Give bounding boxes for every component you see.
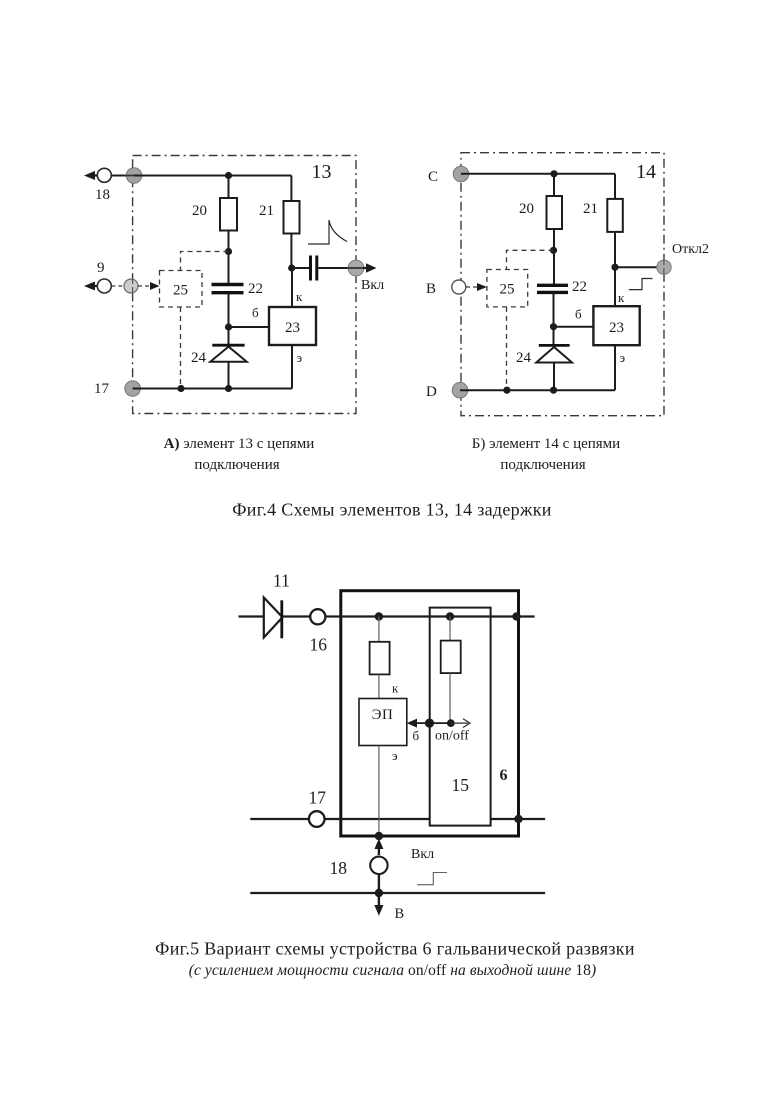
step icon B: [629, 279, 653, 290]
junction dot collector node: [288, 264, 295, 271]
device 6 box: [341, 591, 519, 836]
figure 4 caption: [232, 500, 551, 520]
bottom rail A: [133, 388, 292, 390]
junction dot rail-dashed: [177, 385, 184, 392]
label 6: [500, 767, 508, 784]
enclosure 13 dash-dot border: [133, 156, 356, 414]
collector wire: [291, 268, 293, 307]
junction dot top R20B: [550, 170, 557, 177]
svg-text:к: к: [296, 289, 303, 304]
svg-text:б: б: [252, 305, 259, 320]
wire 16 into box: [325, 615, 341, 617]
junction dot collector node B: [611, 264, 618, 271]
label 16: [310, 635, 328, 655]
svg-text:6: 6: [500, 767, 508, 784]
svg-text:Вкл: Вкл: [361, 278, 384, 293]
open circle pin 18: [97, 168, 111, 182]
svg-text:э: э: [297, 350, 303, 365]
wire R21B to collector node: [614, 232, 616, 267]
label b (EP): [413, 728, 420, 743]
gray terminal Vkl: [348, 260, 364, 276]
svg-text:б: б: [575, 307, 582, 322]
label 9: [97, 260, 105, 276]
svg-text:э: э: [392, 748, 398, 763]
junction dot railB-diode: [550, 387, 557, 394]
resistor 20: [220, 198, 237, 231]
wire C22B to base node: [553, 292, 555, 326]
svg-text:э: э: [620, 350, 626, 365]
dashed link node to box 25B: [507, 250, 554, 269]
capacitor 22 (B): [537, 285, 568, 292]
open arrow right on/off: [451, 719, 471, 728]
svg-text:21: 21: [259, 203, 274, 219]
caption A: [164, 436, 315, 473]
output wire to Otkl2: [615, 266, 664, 268]
dashed wire box25 to bottom rail: [180, 307, 182, 389]
top supply wire B: [461, 173, 615, 175]
wire to EP resistor: [378, 617, 380, 642]
figure 5 caption: [155, 939, 635, 980]
dashed arrow into box 25: [138, 282, 160, 290]
junction dot railB-dashed: [503, 387, 510, 394]
svg-text:16: 16: [310, 635, 328, 655]
label 20: [192, 203, 207, 219]
open circle pin 9: [97, 279, 111, 293]
svg-text:25: 25: [500, 282, 515, 298]
junction dot base node: [225, 323, 232, 330]
on/off line with left arrow: [407, 719, 451, 728]
bottom bus B: [250, 892, 545, 894]
label C: [428, 169, 438, 185]
svg-text:подключения: подключения: [500, 457, 585, 473]
svg-text:б: б: [413, 728, 420, 743]
svg-text:17: 17: [309, 788, 327, 808]
junction dot top of R20: [225, 172, 232, 179]
diode 11: [264, 598, 310, 639]
junction dot top right box edge: [512, 612, 520, 620]
svg-text:к: к: [392, 681, 399, 696]
emitter follower EP box: [359, 699, 407, 746]
svg-text:D: D: [426, 384, 437, 400]
svg-text:А) элемент 13 с цепями: А) элемент 13 с цепями: [164, 436, 315, 452]
wire R21 to collector node: [290, 234, 292, 269]
label 17 (fig5): [309, 788, 327, 808]
down arrow to B: [374, 893, 383, 916]
junction dot rail-diode: [225, 385, 232, 392]
junction dot top 15 branch: [446, 612, 454, 620]
up arrow into box bottom: [374, 839, 383, 856]
label 24: [191, 350, 207, 366]
open circle terminal 18 (fig5): [370, 857, 387, 874]
step icon fig5: [417, 873, 447, 885]
svg-text:9: 9: [97, 260, 105, 276]
diode 24 (B): [536, 327, 572, 391]
gray terminal 17: [125, 381, 141, 397]
wire R20B down: [553, 229, 555, 285]
top supply wire: [134, 175, 291, 177]
dashed arrow into box 25B: [466, 283, 487, 291]
base wire to box 23B: [554, 326, 594, 328]
label 13: [312, 161, 332, 183]
svg-text:23: 23: [609, 320, 624, 336]
gray node on border (net 9): [124, 278, 138, 294]
wire circle18 to node: [111, 175, 134, 177]
dashed link node to box 25: [181, 252, 229, 271]
label 11: [273, 571, 290, 591]
caption B: [472, 436, 620, 473]
svg-text:18: 18: [95, 187, 110, 203]
svg-text:17: 17: [94, 381, 110, 397]
label 18 (fig5): [330, 858, 348, 878]
svg-text:подключения: подключения: [194, 457, 279, 473]
top bus inside box 6: [341, 615, 535, 617]
junction dot onoff right: [447, 719, 455, 727]
label e: [297, 350, 303, 365]
wire C22 to base node: [228, 293, 230, 327]
capacitor 22: [212, 285, 244, 293]
svg-text:B: B: [426, 281, 436, 297]
open circle terminal 16: [310, 609, 325, 624]
transistor block 23 (B): [593, 306, 639, 345]
label 21 (B): [583, 201, 598, 217]
junction dot bottom bus: [375, 889, 383, 897]
arrow left on pin 9: [84, 282, 97, 291]
svg-text:Фиг.4 Схемы элементов 13, 14 з: Фиг.4 Схемы элементов 13, 14 задержки: [232, 500, 551, 520]
wire R20 to node A: [228, 231, 230, 285]
emitter wire B: [614, 345, 616, 390]
transistor block 23: [269, 307, 316, 345]
label B net (fig5): [395, 906, 405, 922]
resistor 20 (B): [547, 196, 563, 229]
label k (B): [618, 290, 625, 305]
svg-text:25: 25: [173, 283, 188, 299]
wire down from top to R21B: [614, 174, 616, 199]
collector wire B: [614, 267, 616, 306]
output coupling capacitor: [292, 256, 356, 281]
svg-text:24: 24: [516, 350, 532, 366]
dashed link pin9 to gray node: [111, 285, 124, 287]
label k (EP): [392, 681, 399, 696]
label b: [252, 305, 259, 320]
svg-text:Откл2: Откл2: [672, 242, 709, 257]
wire down to R20B: [553, 174, 555, 196]
emitter wire: [291, 345, 293, 389]
svg-text:on/off: on/off: [435, 729, 469, 744]
junction dot box6 bottom: [375, 832, 383, 840]
junction dot base node B: [550, 323, 557, 330]
label 20 (B): [519, 201, 534, 217]
label Otkl2: [672, 242, 709, 257]
arrow left on pin 18: [84, 171, 97, 180]
label 18: [95, 187, 110, 203]
label 22 (B): [572, 279, 587, 295]
svg-text:Б) элемент 14 с цепями: Б) элемент 14 с цепями: [472, 436, 620, 452]
svg-text:13: 13: [312, 161, 332, 183]
arrow right Vkl: [363, 263, 377, 272]
svg-text:Вкл: Вкл: [411, 847, 434, 862]
svg-text:22: 22: [572, 279, 587, 295]
label e (B): [620, 350, 626, 365]
resistor 21 (B): [607, 199, 623, 232]
label b (B): [575, 307, 582, 322]
resistor 15 branch: [441, 641, 461, 674]
resistor 21: [284, 201, 300, 234]
svg-text:Фиг.5 Вариант схемы устройства: Фиг.5 Вариант схемы устройства 6 гальван…: [155, 939, 635, 959]
junction dot node below R20B: [550, 247, 557, 254]
label 17: [94, 381, 110, 397]
svg-text:ЭП: ЭП: [372, 707, 394, 723]
open circle pin B: [452, 280, 466, 294]
label Vkl: [361, 278, 384, 293]
decay pulse icon: [308, 220, 347, 244]
svg-text:11: 11: [273, 571, 290, 591]
label 21: [259, 203, 274, 219]
gray terminal node on border (net 18): [124, 168, 144, 184]
svg-text:15: 15: [452, 775, 470, 795]
gray terminal D: [452, 382, 468, 398]
control box 25 (B): [487, 270, 528, 307]
input wire left: [239, 615, 265, 617]
junction dot onoff left: [425, 719, 434, 728]
svg-text:к: к: [618, 290, 625, 305]
wire down to R20: [228, 176, 230, 199]
label 22: [248, 281, 263, 297]
enclosure 14 dash-dot border: [461, 153, 664, 416]
open circle terminal 17: [309, 811, 325, 827]
label k: [296, 289, 303, 304]
wire resistor to EP box: [378, 674, 380, 698]
dashed wire box25B to bottom rail: [506, 307, 508, 390]
label D: [426, 384, 437, 400]
svg-text:(с усилением мощности сигнала: (с усилением мощности сигнала on/off на …: [189, 962, 597, 979]
label 15: [452, 775, 470, 795]
bus 17: [250, 818, 545, 820]
junction dot bus17 box edge: [514, 815, 522, 823]
svg-text:23: 23: [285, 320, 300, 336]
wire 18 to bottom bus: [378, 874, 380, 893]
resistor EP branch: [370, 642, 390, 675]
label 14: [636, 161, 656, 183]
wire to 15 resistor: [449, 617, 451, 641]
svg-text:В: В: [395, 906, 405, 922]
svg-text:22: 22: [248, 281, 263, 297]
base wire to box 23: [229, 326, 270, 328]
svg-text:21: 21: [583, 201, 598, 217]
wire down from R21: [290, 176, 292, 202]
label B: [426, 281, 436, 297]
label e (EP): [392, 748, 398, 763]
svg-text:18: 18: [330, 858, 348, 878]
svg-text:20: 20: [519, 201, 534, 217]
svg-text:C: C: [428, 169, 438, 185]
label on/off: [435, 729, 469, 744]
label 24 (B): [516, 350, 532, 366]
label Vkl (fig5): [411, 847, 434, 862]
diode 24: [210, 327, 246, 389]
svg-text:14: 14: [636, 161, 656, 183]
wire resistor to on/off node: [449, 673, 451, 723]
svg-text:20: 20: [192, 203, 207, 219]
emitter wire down: [378, 746, 380, 837]
block 15 box: [430, 608, 491, 826]
svg-text:24: 24: [191, 350, 207, 366]
gray terminal C: [453, 166, 469, 182]
junction dot top EP branch: [375, 612, 383, 620]
control box 25: [160, 271, 203, 308]
junction dot node below R20: [225, 248, 232, 255]
bottom rail B: [460, 389, 615, 391]
gray terminal Otkl2: [657, 259, 671, 276]
